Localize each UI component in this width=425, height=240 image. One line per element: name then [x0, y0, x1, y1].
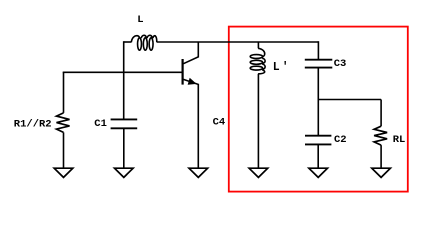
transistor Q1 emitter: [183, 79, 198, 167]
red highlight box: [229, 27, 408, 192]
resistor RL: [374, 126, 387, 145]
wire: RL branch top: [380, 100, 382, 127]
wire: L' to ground: [257, 74, 259, 168]
ground (C1): [115, 168, 134, 177]
transistor Q1 emitter arrow: [188, 79, 195, 85]
svg-text:RL: RL: [393, 134, 406, 146]
svg-text:R1//R2: R1//R2: [14, 119, 52, 131]
wire: top rail left segment: [124, 41, 132, 43]
wire: R1//R2 branch top: [63, 72, 65, 113]
capacitor C2: [305, 136, 331, 145]
wire: C3 branch top: [317, 41, 319, 60]
ground (RL): [372, 168, 391, 177]
capacitor C3: [305, 60, 333, 68]
inductor L: [131, 35, 157, 50]
wire: C2 to ground: [317, 144, 319, 167]
wire: RL to ground: [380, 145, 382, 168]
wire: L' branch top: [257, 42, 259, 48]
svg-text:C4: C4: [213, 116, 226, 128]
svg-text:L': L': [273, 61, 291, 74]
ground (C2): [309, 168, 328, 177]
svg-text:C2: C2: [334, 134, 347, 146]
resistor R1//R2: [57, 113, 70, 132]
node: junction to RL: [318, 99, 381, 101]
svg-text:C1: C1: [94, 118, 107, 130]
transistor Q1 base bar: [182, 59, 184, 85]
transistor Q1 collector: [183, 42, 198, 64]
svg-text:C3: C3: [334, 58, 347, 70]
wire: R1//R2 to ground: [63, 132, 65, 167]
inductor L': [250, 48, 265, 74]
wire: top rail right segment: [157, 41, 319, 43]
svg-text:L: L: [137, 14, 143, 26]
capacitor C1: [111, 119, 138, 128]
wire: C3 to C2: [317, 68, 319, 136]
wire: C1 to ground: [123, 128, 125, 168]
ground (R1//R2): [54, 168, 73, 177]
wire: base rail: [63, 71, 183, 73]
ground (L'): [249, 168, 268, 177]
ground (emitter / C4 branch): [189, 168, 208, 177]
wire: left vertical (top rail to C1): [123, 41, 125, 119]
